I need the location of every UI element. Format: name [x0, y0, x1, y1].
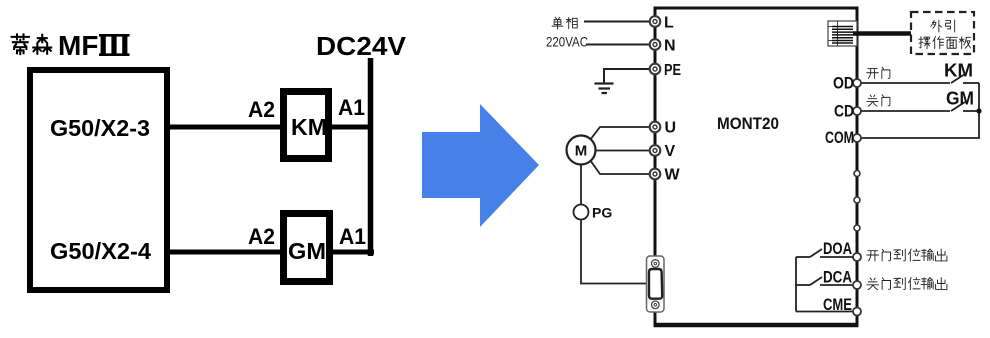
keypad port RJ45	[828, 21, 857, 46]
svg-text:MONT20: MONT20	[717, 114, 779, 133]
label 开门到位输出	[867, 249, 947, 261]
label 开门	[867, 67, 890, 78]
terminal U	[650, 122, 661, 133]
wire DOA left	[796, 256, 810, 258]
KM contact blade	[951, 74, 965, 83]
svg-text:L: L	[664, 15, 674, 32]
ground symbol	[595, 84, 614, 94]
svg-text:DC24V: DC24V	[316, 31, 407, 61]
wire motor to V	[596, 150, 650, 152]
svg-text:KM: KM	[291, 114, 327, 140]
wire DCA left	[796, 284, 810, 286]
svg-text:OD: OD	[833, 75, 854, 93]
svg-text:MF: MF	[58, 30, 98, 61]
wire CME	[796, 311, 853, 313]
svg-text:CME: CME	[823, 296, 852, 314]
svg-text:GM: GM	[946, 89, 974, 109]
wire L input	[584, 21, 650, 23]
D-sub encoder connector	[647, 256, 665, 312]
label 操作面板	[919, 37, 971, 49]
big blue arrow	[422, 104, 539, 227]
terminal OD	[853, 79, 861, 87]
wire PE input	[604, 69, 650, 83]
terminal CME	[853, 308, 861, 316]
svg-text:G50/X2-3: G50/X2-3	[50, 115, 150, 141]
terminal COM	[853, 134, 861, 142]
label 外引	[931, 20, 955, 32]
svg-text:COM: COM	[825, 129, 854, 147]
terminal PE	[650, 64, 661, 75]
spare terminal 1	[854, 171, 860, 177]
label 单相	[552, 17, 577, 29]
wire motor to PG to encoder port	[581, 164, 646, 284]
wire motor to W	[590, 160, 650, 174]
DOA contact blade	[810, 249, 822, 257]
wire DOA to terminal	[820, 256, 853, 258]
wire KM A1 to DC24V line	[331, 125, 373, 130]
terminal CD	[853, 107, 861, 115]
terminal DOA	[853, 253, 861, 261]
svg-text:W: W	[665, 167, 681, 184]
svg-text:M: M	[575, 143, 588, 160]
wire G50/X2-4 to GM A2	[167, 250, 281, 255]
svg-text:GM: GM	[288, 238, 326, 264]
relay coil GM	[284, 214, 330, 282]
svg-text:DOA: DOA	[823, 240, 852, 258]
wire CD to GM contact	[861, 110, 950, 112]
wire GM A1 to DC24V line	[332, 250, 374, 255]
terminal W	[650, 169, 661, 180]
box MFIII controller	[30, 70, 167, 290]
svg-text:KM: KM	[944, 61, 973, 81]
svg-text:V: V	[665, 143, 676, 160]
junction dot	[976, 108, 981, 113]
title III (roman numeral)	[99, 35, 130, 56]
title 森	[33, 35, 51, 54]
wire motor to U	[590, 127, 650, 140]
wire N input	[586, 44, 650, 46]
relay coil KM	[284, 92, 329, 159]
svg-text:A1: A1	[338, 95, 365, 120]
wire GM contact to right rail	[963, 110, 979, 112]
svg-text:220VAC: 220VAC	[546, 34, 588, 50]
svg-text:A2: A2	[248, 97, 275, 122]
wire COM return	[861, 137, 980, 139]
external keypad dashed box	[911, 12, 974, 54]
terminal L	[650, 16, 661, 27]
wire DC24V vertical	[368, 58, 374, 256]
output group rail	[795, 257, 797, 312]
wire keypad to external panel	[853, 31, 911, 36]
encoder PG	[574, 205, 613, 221]
inverter box MONT20	[655, 8, 857, 325]
wire DCA to terminal	[820, 284, 853, 286]
label 关门到位输出	[867, 278, 947, 290]
svg-text:DCA: DCA	[823, 269, 852, 287]
DCA contact blade	[810, 277, 822, 285]
terminal DCA	[853, 281, 861, 289]
inverter box bottom edge	[654, 323, 859, 328]
svg-text:PG: PG	[592, 205, 612, 221]
svg-text:U: U	[665, 120, 677, 137]
wire OD to KM contact	[861, 82, 950, 84]
title 蒂	[12, 34, 29, 54]
svg-text:A1: A1	[339, 224, 366, 249]
terminal N	[650, 39, 661, 50]
spare terminal 3	[854, 225, 860, 231]
GM contact blade	[951, 102, 965, 111]
svg-text:A2: A2	[248, 224, 275, 249]
svg-text:CD: CD	[834, 103, 854, 121]
terminal V	[650, 145, 661, 156]
wire KM contact to right rail	[963, 82, 979, 84]
wire G50/X2-3 to KM A2	[167, 125, 281, 130]
label 关门	[867, 95, 890, 106]
motor M	[567, 136, 596, 165]
svg-text:N: N	[664, 38, 676, 55]
svg-text:G50/X2-4: G50/X2-4	[50, 238, 151, 264]
right rail vertical	[978, 83, 980, 138]
svg-text:PE: PE	[664, 62, 681, 79]
spare terminal 2	[854, 197, 860, 203]
